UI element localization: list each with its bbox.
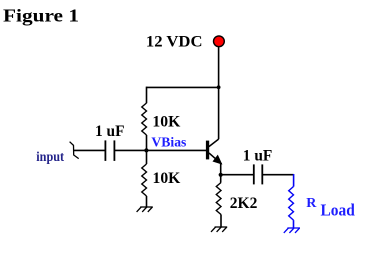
- wire R1 to VBias node: [146, 135, 148, 164]
- svg-text:Figure 1: Figure 1: [3, 5, 79, 25]
- node VBias junction dot: [144, 148, 148, 152]
- svg-text:R: R: [306, 196, 317, 211]
- resistor R1 10K (upper bias): [142, 103, 147, 135]
- resistor R3 2K2: [216, 183, 221, 215]
- resistor RLoad (blue): [289, 187, 294, 221]
- wire supply vertical to collector: [218, 47, 220, 139]
- svg-text:input: input: [36, 149, 64, 164]
- wire C1 to base: [114, 149, 206, 151]
- svg-text:12 VDC: 12 VDC: [146, 34, 203, 51]
- node emitter junction dot: [219, 173, 223, 177]
- svg-text:1 uF: 1 uF: [243, 147, 273, 164]
- transistor Q1 base bar: [206, 141, 209, 160]
- wire input to C1: [74, 149, 106, 151]
- ground chassis RLoad (blue): [284, 228, 300, 233]
- wire emitter vertical: [220, 164, 222, 183]
- wire R2 to ground: [146, 196, 148, 207]
- wire left vertical to R1: [146, 87, 148, 104]
- wire R3 to ground: [220, 215, 222, 228]
- resistor R2 10K (lower bias): [142, 164, 147, 196]
- transistor Q1 emitter lead: [209, 153, 222, 164]
- svg-text:VBias: VBias: [151, 135, 187, 150]
- supply terminal 12VDC (red): [214, 36, 225, 47]
- svg-text:10K: 10K: [153, 170, 181, 187]
- wire load vertical (blue): [293, 174, 295, 187]
- svg-text:1 uF: 1 uF: [95, 123, 125, 140]
- input terminal hook: [70, 142, 79, 159]
- ground chassis below R2: [137, 207, 153, 212]
- svg-text:2K2: 2K2: [230, 195, 258, 212]
- wire C2 to load corner: [262, 174, 293, 176]
- wire RLoad to ground (blue): [293, 220, 295, 228]
- svg-text:Load: Load: [321, 201, 356, 220]
- capacitor C1 1uF plates: [104, 140, 106, 161]
- wire emitter to C2: [221, 174, 254, 176]
- wire top horizontal branch: [147, 86, 219, 88]
- junction dot at supply branch: [217, 85, 221, 89]
- transistor Q1 emitter arrowhead: [213, 155, 223, 165]
- ground chassis below R3: [211, 227, 227, 232]
- svg-text:10K: 10K: [152, 113, 180, 130]
- capacitor C2 1uF plates: [253, 164, 255, 184]
- transistor Q1 collector lead: [209, 139, 219, 147]
